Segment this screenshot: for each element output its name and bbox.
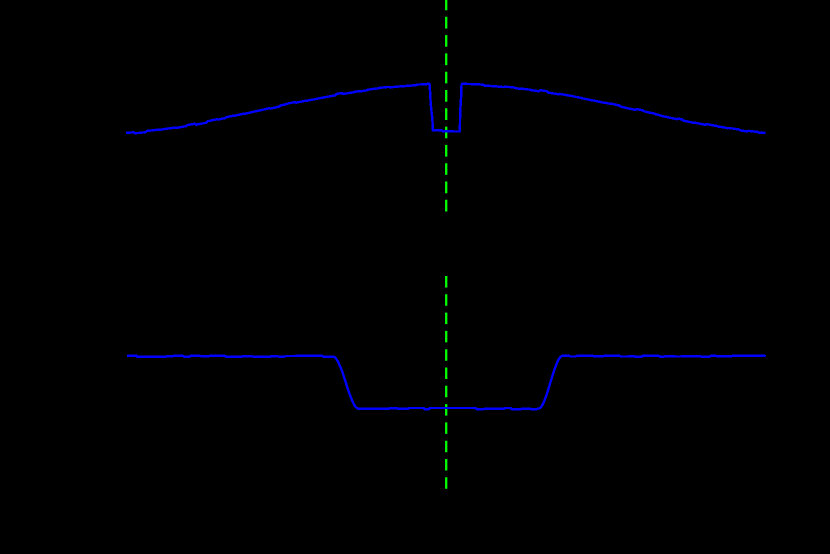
green dashed vertical marker line, upper segment <box>445 0 447 212</box>
bottom blue curve: step-down plateau signal <box>127 356 766 410</box>
top blue curve: broad arc with central notch dip <box>126 84 766 133</box>
green dashed vertical marker line, lower segment <box>445 276 447 490</box>
